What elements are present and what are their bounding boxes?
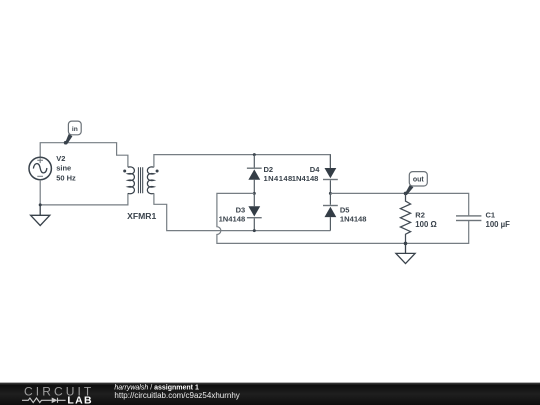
svg-text:100 µF: 100 µF [486, 220, 511, 229]
node V2 bottom junction [39, 203, 42, 206]
svg-text:D5: D5 [340, 206, 350, 215]
transformer XFMR1 secondary phase dot [156, 170, 159, 173]
V2 minus sign [37, 175, 43, 177]
svg-text:out: out [413, 176, 425, 183]
wire left branch with hop [217, 193, 469, 243]
footer logo waveform [22, 398, 66, 403]
wire out [330, 193, 468, 215]
svg-text:http://circuitlab.com/c9az54xh: http://circuitlab.com/c9az54xhurnhy [114, 391, 239, 400]
transformer XFMR1 core [138, 167, 142, 193]
svg-text:V2: V2 [56, 154, 65, 163]
ground under R2 [396, 243, 415, 263]
node mid rail D3 junction [253, 229, 256, 232]
footer logo diode glyph [52, 398, 58, 404]
node out junction [404, 192, 408, 196]
diode D3 [253, 193, 255, 230]
svg-text:D4: D4 [310, 165, 320, 174]
svg-text:R2: R2 [415, 211, 425, 220]
V2 plus sign [37, 158, 43, 164]
svg-text:LAB: LAB [67, 395, 92, 405]
node top rail D2 junction [253, 153, 256, 156]
diode D5 [329, 193, 331, 230]
node in junction dot [64, 141, 68, 145]
flag out pointer [405, 185, 414, 195]
transformer XFMR1 primary coil [128, 167, 135, 194]
transformer XFMR1 primary phase dot [123, 170, 126, 173]
transformer XFMR1 secondary coil [147, 167, 154, 194]
capacitor C1 [456, 215, 481, 216]
svg-text:100 Ω: 100 Ω [415, 220, 436, 229]
wire primary top [40, 143, 128, 168]
flag out box [409, 172, 427, 186]
ground under V2 [31, 205, 50, 226]
svg-text:in: in [72, 126, 78, 133]
footer bar [0, 383, 540, 405]
diode D4 [329, 155, 331, 194]
V2 sine wave [33, 164, 47, 173]
svg-text:50 Hz: 50 Hz [56, 174, 76, 183]
flag in box [68, 121, 81, 135]
svg-text:D3: D3 [236, 206, 246, 215]
wire secondary bottom [154, 193, 331, 230]
voltage source V2 [29, 157, 51, 179]
svg-text:C1: C1 [486, 211, 496, 220]
resistor R2 [400, 193, 410, 243]
flag in pointer [65, 134, 73, 145]
svg-text:XFMR1: XFMR1 [127, 211, 156, 221]
svg-text:1N4148: 1N4148 [219, 215, 246, 224]
wire V2 bottom [40, 180, 128, 205]
node D4 D5 junction [329, 192, 332, 195]
svg-text:1N4148: 1N4148 [264, 174, 293, 183]
diode D2 [253, 155, 255, 194]
svg-text:1N4148: 1N4148 [292, 174, 319, 183]
node bottom rail R2 junction [404, 242, 408, 246]
svg-text:sine: sine [56, 163, 71, 172]
node D2 D3 junction [253, 192, 256, 195]
svg-text:D2: D2 [264, 165, 274, 174]
wire secondary top [154, 155, 331, 168]
svg-text:1N4148: 1N4148 [340, 215, 367, 224]
